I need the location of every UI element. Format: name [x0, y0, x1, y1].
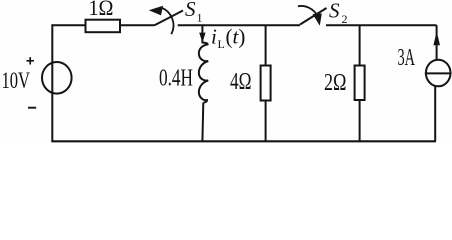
svg-text:1Ω: 1Ω [89, 0, 114, 20]
svg-text:10V: 10V [2, 68, 31, 93]
svg-text:i: i [211, 24, 217, 48]
svg-text:2: 2 [342, 12, 348, 26]
svg-text:(t): (t) [226, 24, 246, 48]
svg-text:2Ω: 2Ω [324, 69, 347, 96]
svg-text:S: S [329, 0, 340, 23]
svg-text:1: 1 [197, 10, 203, 24]
svg-text:S: S [185, 0, 196, 21]
svg-text:L: L [218, 37, 225, 51]
svg-text:4Ω: 4Ω [230, 69, 252, 95]
svg-text:0.4H: 0.4H [159, 66, 193, 92]
svg-text:3A: 3A [398, 44, 416, 71]
